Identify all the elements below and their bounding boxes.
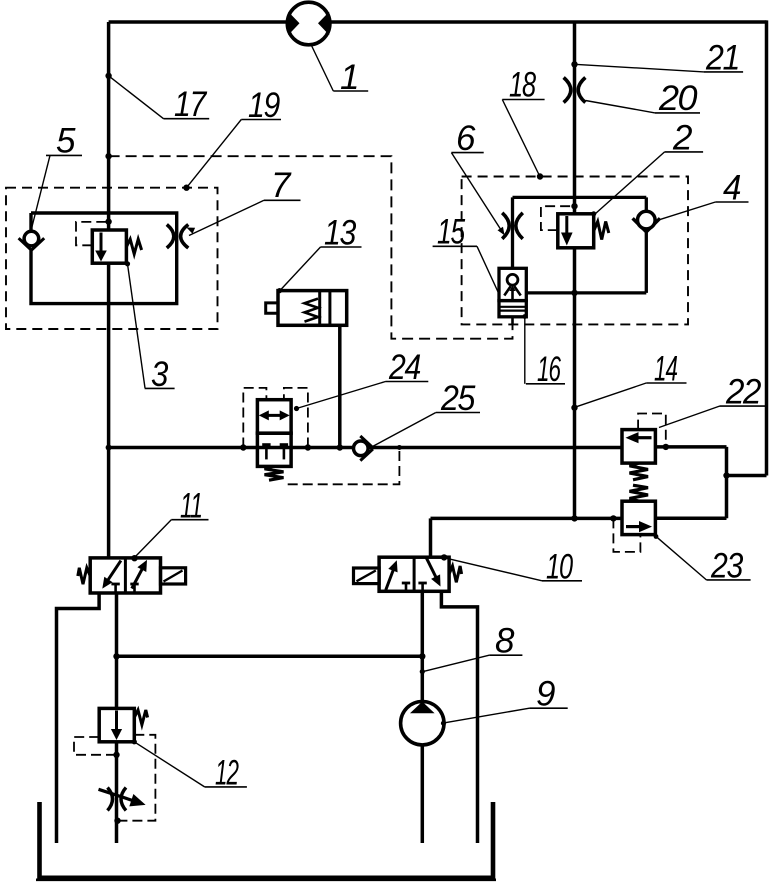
drain line valve12 [119,735,155,821]
node dot pilot22 [663,444,669,450]
label 11 [135,520,172,558]
node junction cylinder line [337,444,343,450]
svg-text:14: 14 [654,350,678,389]
node dot valve23 corner [654,534,659,539]
svg-text:23: 23 [710,547,744,586]
cylinder 13 body [278,291,347,326]
svg-text:1: 1 [340,58,358,97]
valve V10 T-port right [418,582,426,585]
relief valve V3 spring [126,239,141,254]
wire main right vertical (line 14/21) [573,22,577,518]
node dot block16 corner [522,314,527,319]
pilot line valve22 [638,414,666,447]
restrictor R20 left arc [564,78,571,103]
svg-text:22: 22 [725,373,761,412]
wire valve11 left output to tank [57,593,100,843]
wire right loop horizontal [727,474,767,478]
label 14 [575,383,646,407]
node junction mid wire / left vertical [106,445,112,451]
relief valve V2 spring [594,222,609,240]
svg-text:9: 9 [536,674,555,713]
svg-text:19: 19 [248,86,280,125]
svg-text:17: 17 [174,85,208,124]
valve V23 arrow [626,525,640,528]
svg-text:3: 3 [151,355,169,394]
motor M1 circle [287,2,330,45]
node junction main vertical / valve23 input [571,515,577,521]
check valve C5 circle [24,231,39,246]
node dot valve10 [441,554,447,560]
node dot cylinder corner [277,288,282,293]
svg-text:13: 13 [324,213,357,252]
wire mid horizontal (to valve 22) [109,446,622,450]
wire valve23 input (line from valve 10) [431,517,623,521]
check valve C4 seat [633,218,660,232]
relief valve V3 body [92,230,126,263]
tank outline [40,802,494,878]
wire 8 horizontal [117,655,423,659]
label 5 [31,155,50,229]
pilot line valve12 [74,737,117,755]
node dot pilot23 [610,515,616,521]
enclosure right dashed box (18) [462,177,688,325]
node dot valve2 corner [591,211,596,216]
svg-text:2: 2 [672,119,692,158]
throttle arrow [99,789,134,800]
label 2 [595,152,665,214]
throttle arcs [108,788,113,811]
node dot label14 [571,405,577,411]
wire valve10 riser [429,518,433,558]
pump P9 circle [401,702,444,745]
node dot pilot2 [571,203,577,209]
valve V10 solenoid [354,568,380,584]
wire valve23 output [655,516,726,520]
svg-text:4: 4 [723,168,741,207]
label 20 [586,101,656,113]
restrictor R6 right arc [516,213,523,239]
svg-text:7: 7 [271,166,292,205]
valve V23 body [622,501,655,534]
wire cylinder 13 down [338,325,342,447]
node dot valve11 [131,555,137,561]
relief valve V12 spring [134,710,147,725]
wire valve11 down to tank [115,593,119,843]
label 7 [189,200,264,235]
node junction right-box bottom [571,290,577,296]
valve V24 double arrow [264,414,286,417]
label 12 [135,742,205,787]
node dot valve12 corner [132,739,137,744]
cylinder 13 piston [318,291,321,326]
svg-text:10: 10 [546,547,573,586]
node dot label17 [105,73,111,79]
node dot big outline at left vertical [105,153,111,159]
node junction wire8/pump line [419,653,425,659]
relief valve V12 body [99,708,134,741]
label 15 [477,246,499,294]
wire restrictor branch vertical [511,197,514,268]
valve V24 T-port right [280,443,288,446]
shuttle valve 15 legs [504,286,520,295]
cylinder 13 spring [305,299,319,322]
label 8 [424,655,490,671]
wire check-valve-4 branch vertical [645,197,648,293]
node dot leader8 [420,669,425,674]
label 23 [657,537,706,580]
svg-text:16: 16 [537,350,561,389]
valve V10 left arrow [386,568,394,590]
svg-text:5: 5 [56,122,76,161]
node dot label24 [294,406,299,411]
wire main left vertical (line 17) [107,22,111,559]
node dot drain12 [114,818,120,824]
label 6 [451,153,503,234]
label 19 [187,120,242,188]
node dot label19 [183,185,189,191]
label 16 [524,317,526,384]
motor M1 right triangle [318,12,329,35]
svg-text:12: 12 [215,753,239,792]
wire far-right vertical [765,20,769,475]
check valve C4 circle [638,211,656,229]
svg-text:15: 15 [437,213,466,252]
orifice block 16 [499,301,526,317]
svg-text:8: 8 [495,621,515,660]
pump P9 triangle [410,702,435,714]
valve V11 left arrow [107,561,121,583]
node dot pilot24 left [240,444,246,450]
node dot label9 [441,721,446,726]
relief valve V2 body [558,214,594,248]
relief valve V3 arrow [100,233,103,254]
label 24 [297,382,386,409]
svg-text:6: 6 [456,119,476,158]
cylinder 13 rod [266,303,278,313]
wire valve22/23 right loop vertical [725,447,729,518]
valve V10 T-port left [402,582,410,585]
label 21 [575,64,705,72]
block left solid rectangle [31,213,177,304]
valve V22 body [622,430,655,464]
svg-text:21: 21 [705,38,739,77]
node dot pilot12 [113,752,119,758]
enclosure big dashed outline [109,156,513,339]
enclosure left inner dashed box (19) [6,188,218,329]
check valve C5 seat [19,238,45,250]
pilot line valve24 left [243,388,266,448]
valve V24 spring [265,466,284,480]
label 17 [109,76,164,119]
label 13 [280,247,321,291]
valve V10 body [379,557,449,591]
valve V10 right arrow [426,558,436,579]
node dot drain24 [397,445,402,450]
pilot line valve24 right [284,388,308,448]
shuttle valve 15 body [499,268,526,300]
node dot valve3 corner [125,261,130,266]
restrictor R7 right arc [181,225,189,249]
motor M1 left triangle [288,12,299,35]
valve V10 spring [449,566,462,582]
label 10 [445,558,543,581]
label 4 [659,202,715,220]
node junction right loop [723,472,729,478]
svg-text:25: 25 [440,379,476,418]
label 22 [659,406,720,427]
node dot label21 [571,61,577,67]
label 3 [128,264,146,388]
check valve C25 seat [360,436,373,461]
drain line valve24 [288,448,400,485]
valve V11 body [90,558,160,593]
valve V24 upper body [257,400,291,434]
wire right-box top inner [513,196,647,199]
restrictor R7 left arc [167,225,174,249]
valve V11 right diagonal arrow [132,567,144,589]
valve V11 solenoid [161,568,186,584]
label 25 [373,413,436,447]
wire pump line vertical [421,591,425,843]
valve V22 spring [630,463,649,480]
svg-text:11: 11 [180,486,202,525]
valve V11 T-port left [111,583,119,586]
check valve C25 circle [354,441,369,456]
pilot line valve23 [613,518,640,552]
wire valve22 output [655,445,726,449]
svg-text:18: 18 [509,66,536,105]
relief valve V2 arrow [565,216,568,233]
restrictor R20 right arc [578,78,585,103]
svg-text:24: 24 [388,348,421,387]
wire valve10 right output to tank [441,591,477,843]
svg-text:20: 20 [658,79,698,118]
node dot pilot3 [105,218,111,224]
valve V23 spring [630,485,649,501]
pilot line valve2 [541,206,575,230]
node dot label18 [537,173,543,179]
pilot line valve3 [76,222,109,245]
valve V22 arrow [638,436,652,439]
tank bottom thick [36,878,496,881]
label 18 [502,100,539,176]
valve V11 T-port right [130,583,138,586]
shuttle valve 15 stem [511,288,514,301]
restrictor R6 left arc [502,213,509,239]
valve V24 T-port left [262,443,270,446]
label 1 [311,45,333,92]
relief valve V12 arrow [115,711,118,732]
valve V11 spring [78,568,90,584]
wire right-box bottom inner [526,291,646,294]
node dot wire8 left end [113,653,119,659]
shuttle valve 15 ball [507,274,518,285]
wire top horizontal bus [109,20,767,24]
label 9 [445,708,530,723]
valve V24 lower body [257,433,291,466]
wire shuttle valve drain stub [511,317,514,325]
node dot pilot24 right [305,444,311,450]
